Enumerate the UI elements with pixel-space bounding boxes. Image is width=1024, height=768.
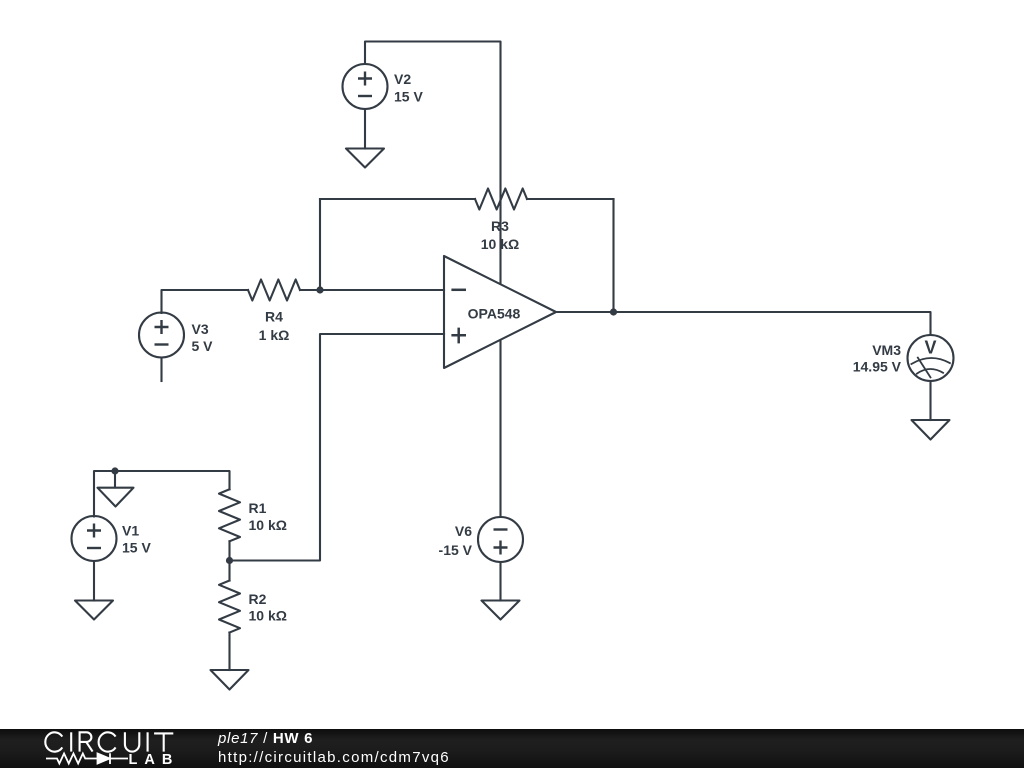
CircuitLab logo wordmark CIRCUIT xyxy=(45,732,173,751)
svg-text:V2: V2 xyxy=(394,71,411,87)
wire V6 bottom stub xyxy=(499,562,501,601)
label R2 10 kOhm xyxy=(249,591,287,624)
resistor R1 xyxy=(219,489,240,541)
label R1 10 kOhm xyxy=(249,500,287,533)
svg-text:R1: R1 xyxy=(249,500,267,516)
wire R3 right lead xyxy=(527,198,614,200)
voltage source V6 xyxy=(478,517,523,562)
label V6 -15 V xyxy=(439,523,473,558)
voltage source V1 xyxy=(72,516,117,561)
svg-text:5 V: 5 V xyxy=(192,338,214,354)
CircuitLab watermark bar xyxy=(0,729,1024,768)
resistor R2 xyxy=(219,581,240,633)
wire top bar V1 to R1 xyxy=(94,471,230,517)
wire R3 left lead xyxy=(320,198,475,200)
wire inverting input xyxy=(320,289,444,291)
node R1 / R2 divider junction xyxy=(226,557,233,564)
op-amp U1 OPA548 xyxy=(444,256,556,368)
resistor R4 xyxy=(248,280,300,301)
CircuitLab logo resistor-diode symbol xyxy=(46,753,128,764)
wire from R3 down to inverting node xyxy=(319,199,321,290)
ground at V1 top node xyxy=(98,488,134,507)
ground below V2 xyxy=(346,149,384,168)
svg-text:OPA548: OPA548 xyxy=(468,305,521,321)
wire V2 top to op-amp V+ rail xyxy=(365,42,501,285)
svg-text:14.95 V: 14.95 V xyxy=(853,359,902,375)
node at R4 / R3 junction xyxy=(316,286,323,293)
wire output to VM3 xyxy=(556,312,931,335)
svg-text:V: V xyxy=(924,338,936,358)
ground below V1 xyxy=(75,601,113,620)
label R3 10 kOhm xyxy=(481,218,519,252)
ground below R2 xyxy=(211,670,249,690)
ground below VM3 xyxy=(912,420,950,440)
svg-text:15 V: 15 V xyxy=(394,88,423,104)
wire R2 top lead xyxy=(228,561,230,581)
wire R1 bottom lead xyxy=(228,541,230,560)
node at output / feedback junction xyxy=(610,308,617,315)
wire VM3 bottom stub xyxy=(929,381,931,420)
svg-text:V1: V1 xyxy=(122,522,139,538)
svg-text:10 kΩ: 10 kΩ xyxy=(249,517,287,533)
label R4 1 kOhm xyxy=(259,308,290,343)
svg-text:V6: V6 xyxy=(455,523,472,539)
wire feedback vertical to output node xyxy=(612,199,614,312)
svg-text:VM3: VM3 xyxy=(872,342,901,358)
svg-text:R2: R2 xyxy=(249,591,267,607)
voltage source V3 xyxy=(139,313,184,358)
voltage source V2 xyxy=(343,64,388,109)
wire non-inverting input down to divider xyxy=(230,334,445,561)
svg-text:R3: R3 xyxy=(491,218,509,234)
svg-text:15 V: 15 V xyxy=(122,540,151,556)
svg-text:LAB: LAB xyxy=(129,752,180,768)
label VM3 14.95 V xyxy=(853,342,902,375)
label V1 15 V xyxy=(122,522,151,555)
svg-text:10 kΩ: 10 kΩ xyxy=(249,608,287,624)
wire V1 bottom stub xyxy=(93,561,95,601)
svg-text:1 kΩ: 1 kΩ xyxy=(259,327,290,343)
label V2 15 V xyxy=(394,71,423,104)
wire op-amp V- rail to V6 xyxy=(499,340,501,517)
wire V2 bottom stub xyxy=(364,109,366,149)
wire ground stub at V1 node xyxy=(114,471,116,488)
wire R4 right lead xyxy=(300,289,320,291)
svg-text:10 kΩ: 10 kΩ xyxy=(481,236,519,252)
wire R2 bottom lead xyxy=(228,633,230,671)
node V1 / ground junction xyxy=(111,467,118,474)
voltmeter VM3 xyxy=(908,335,954,381)
svg-text:-15 V: -15 V xyxy=(439,542,473,558)
svg-text:V3: V3 xyxy=(192,321,209,337)
watermark title and url xyxy=(218,730,450,767)
svg-text:R4: R4 xyxy=(265,308,283,324)
label V3 5 V xyxy=(192,321,214,354)
wire V3 bottom open stub xyxy=(160,358,162,382)
resistor R3 xyxy=(475,189,527,210)
wire V3 to R4 xyxy=(162,290,249,313)
ground below V6 xyxy=(482,601,520,620)
